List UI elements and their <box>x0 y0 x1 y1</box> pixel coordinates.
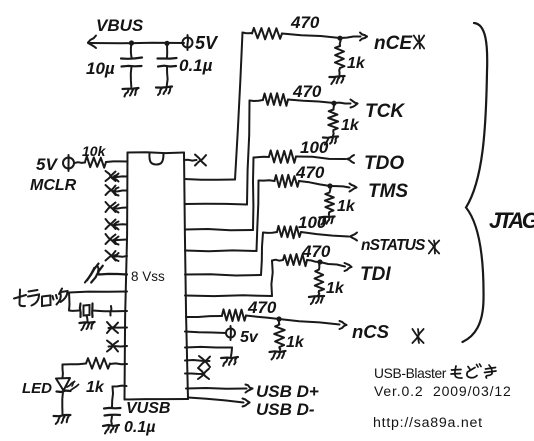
wire pin-to-R7 feed <box>185 158 254 231</box>
svg-text:10µ: 10µ <box>86 59 115 78</box>
junction nCE <box>337 36 342 41</box>
title url <box>373 415 483 431</box>
net label USB D+ <box>256 382 319 401</box>
refmark nSTATUS <box>429 241 439 254</box>
value label 1k TCK <box>341 117 360 134</box>
pin NC left 8 <box>107 341 127 352</box>
value label 470 nCE <box>290 13 320 32</box>
svg-text:470: 470 <box>301 242 331 261</box>
value label 1k TDI <box>326 280 345 297</box>
junction nCS <box>276 316 281 321</box>
resistor R12 1k TDI <box>315 262 325 295</box>
pin NC left 2 <box>106 185 128 196</box>
net label nCS <box>352 321 390 342</box>
capacitor C3 0.1u <box>104 408 121 424</box>
ground pin right <box>221 357 238 366</box>
capacitor C2 0.1u <box>158 58 177 86</box>
wire pin-to-R5 feed <box>185 101 250 205</box>
pin NC left 1 <box>106 171 128 182</box>
resistor R3 470 <box>243 28 283 39</box>
value label 470 TCK <box>292 82 322 101</box>
svg-text:5V: 5V <box>195 33 219 53</box>
svg-text:http://sa89a.net: http://sa89a.net <box>373 415 483 431</box>
title version <box>374 383 512 399</box>
ground C3 <box>103 425 119 434</box>
wire Vss pin <box>99 273 127 276</box>
resistor R6 1k TCK <box>328 103 338 135</box>
terminal 5v right <box>226 326 235 340</box>
net label nCE <box>374 33 413 54</box>
resistor R10 100 <box>263 226 301 238</box>
wire R1-to-pin4 <box>106 160 128 163</box>
capacitor C1 10u <box>121 58 142 88</box>
wire VUSB pin <box>112 386 127 408</box>
wire USB D+ <box>186 385 253 393</box>
value label 470 TDI <box>301 242 331 261</box>
wire pin-to-R10 feed <box>185 233 263 276</box>
svg-text:5v: 5v <box>240 329 259 346</box>
svg-text:5V: 5V <box>36 155 58 174</box>
value label 100 TDO <box>300 138 329 157</box>
net label nSTATUS <box>361 237 426 254</box>
node VBUS label <box>96 16 144 35</box>
svg-text:1k: 1k <box>86 379 105 396</box>
svg-text:LED: LED <box>22 380 52 397</box>
svg-text:100: 100 <box>300 138 329 157</box>
svg-text:TMS: TMS <box>368 181 408 202</box>
pin NC right b1 <box>185 356 210 367</box>
label JTAG <box>489 208 534 233</box>
svg-text:1k: 1k <box>326 280 345 297</box>
label ceralock-ra <box>28 290 39 306</box>
svg-text:MCLR: MCLR <box>30 177 77 194</box>
pin NC right b2 <box>185 368 209 379</box>
net label TMS <box>368 181 408 202</box>
svg-text:TDO: TDO <box>364 153 404 174</box>
svg-text:nCE: nCE <box>374 33 413 54</box>
junction TMS <box>327 183 332 188</box>
value label 100 nSTATUS <box>298 213 327 232</box>
wire pin-to-R2 <box>110 362 127 365</box>
wire 5V-to-R1 <box>75 161 86 164</box>
wire R13-to-nCS <box>246 316 347 330</box>
value label 1k nCE <box>347 55 366 72</box>
resistor R9 1k TMS <box>325 186 334 215</box>
wire R3-to-nCE <box>282 33 367 41</box>
pin tick resonator <box>110 306 111 316</box>
wire resonator top loop <box>69 292 127 311</box>
wire R2-to-LED <box>63 364 87 379</box>
svg-text:470: 470 <box>290 13 320 32</box>
value label 10k <box>82 143 107 159</box>
value label 1k nCS <box>286 334 305 351</box>
resistor R4 1k nCE <box>335 38 345 74</box>
wire TDO-in <box>296 155 354 163</box>
value label 10u <box>86 59 115 78</box>
svg-text:USB-Blaster: USB-Blaster <box>374 366 447 381</box>
pin NC left 5 <box>106 234 128 245</box>
value label 0.1u <box>179 56 213 75</box>
resistor R11 470 <box>272 254 307 266</box>
wire gnd pin right <box>185 347 232 356</box>
value label 1k TMS <box>337 198 356 215</box>
label LED <box>22 380 52 397</box>
junction VBUS-C2 <box>164 41 169 46</box>
svg-text:Ver.0.2 2009/03/12: Ver.0.2 2009/03/12 <box>374 383 512 399</box>
svg-text:1k: 1k <box>347 55 366 72</box>
ground resonator <box>79 322 94 330</box>
label ceralock-ro <box>42 296 51 307</box>
terminal 5V top <box>183 35 193 50</box>
wire resonator bottom <box>93 310 128 313</box>
resistor R13 470 <box>222 309 246 321</box>
title kana do <box>467 364 481 378</box>
pin NC left 3 <box>106 202 128 213</box>
resistor R14 1k nCS <box>274 319 285 350</box>
wire USB D- <box>188 398 250 407</box>
resistor R5 470 <box>250 93 289 106</box>
wire R11-to-TDI <box>307 260 352 271</box>
node 5V MCLR label <box>36 155 58 174</box>
net label TDI <box>360 264 391 285</box>
pin NC left 6 <box>106 251 128 262</box>
value label 1k LED <box>86 379 105 396</box>
LED D1 <box>56 378 79 392</box>
junction TCK <box>331 101 336 106</box>
value label 0.1u bottom <box>124 419 155 436</box>
pin NC left 4 <box>106 219 128 230</box>
svg-text:1k: 1k <box>341 117 360 134</box>
label VUSB <box>126 400 170 417</box>
svg-text:USB D+: USB D+ <box>256 382 319 401</box>
IC U1 body <box>125 152 189 399</box>
junction TDI <box>317 259 322 264</box>
wire 5v pin right <box>185 332 226 334</box>
svg-text:470: 470 <box>295 163 325 182</box>
wire R8-to-TMS <box>299 181 357 192</box>
wire pin-to-R13 <box>186 316 222 317</box>
pin NC left 7 <box>107 322 127 333</box>
terminal 5V MCLR <box>63 155 74 171</box>
ground R6 <box>323 137 338 145</box>
refmark nCS <box>412 329 423 343</box>
node MCLR label <box>30 177 77 194</box>
ground R14 <box>270 351 286 360</box>
ground C1 <box>123 88 139 97</box>
svg-text:VUSB: VUSB <box>126 400 170 417</box>
svg-text:1k: 1k <box>286 334 305 351</box>
pin NC right top <box>184 155 206 166</box>
value label 470 nCS <box>247 298 277 317</box>
ground C2 <box>156 87 172 96</box>
value label 470 TMS <box>295 163 325 182</box>
wire LED-to-gnd <box>61 392 64 415</box>
svg-text:1k: 1k <box>337 198 356 215</box>
svg-text:470: 470 <box>292 82 322 101</box>
svg-text:0.1µ: 0.1µ <box>179 56 213 75</box>
wire R5-to-TCK <box>288 100 358 108</box>
wire pin-to-R8 feed <box>185 181 259 252</box>
ground R12 <box>309 296 324 304</box>
ground R9 <box>319 217 334 225</box>
wire resonator gnd stem <box>87 316 88 322</box>
title kana mo <box>451 366 462 378</box>
wire nSTATUS-in <box>301 232 357 241</box>
node 5V top label <box>195 33 219 53</box>
label ceralock-tsu <box>53 294 61 305</box>
svg-text:VBUS: VBUS <box>96 16 144 35</box>
resistor R8 470 <box>259 175 300 188</box>
label ceralock-se <box>14 290 26 307</box>
resonator X1 <box>80 304 93 318</box>
title kana ki <box>485 365 497 378</box>
pin label 8 Vss <box>131 269 165 284</box>
svg-text:TDI: TDI <box>360 264 391 285</box>
net label TDO <box>364 153 404 174</box>
wire VBUS rail <box>90 42 184 45</box>
resistor R2 1k <box>86 358 110 369</box>
svg-text:USB D-: USB D- <box>256 400 315 419</box>
wire VBUS input arrow <box>88 36 96 49</box>
svg-text:10k: 10k <box>82 143 107 159</box>
svg-text:100: 100 <box>298 213 327 232</box>
svg-text:nSTATUS: nSTATUS <box>361 237 426 254</box>
title USB-Blaster <box>374 366 447 381</box>
svg-text:nCS: nCS <box>352 321 390 342</box>
ground R4 <box>329 76 344 84</box>
resistor R1 10k <box>85 156 106 168</box>
svg-text:0.1µ: 0.1µ <box>124 419 155 436</box>
junction VBUS-C1 <box>129 40 134 45</box>
label ceralock-ku <box>59 289 68 303</box>
wire C1 top lead <box>130 43 133 58</box>
svg-text:470: 470 <box>247 298 277 317</box>
net label USB D- <box>256 400 315 419</box>
svg-text:JTAG: JTAG <box>489 208 534 233</box>
JTAG brace <box>463 23 488 342</box>
wire pin-to-R3 feed <box>185 33 243 180</box>
ground LED <box>54 415 71 424</box>
ground Vss left <box>85 264 103 283</box>
svg-text:8 Vss: 8 Vss <box>131 269 165 284</box>
wire C2 top lead <box>166 43 168 58</box>
node 5v right label <box>240 329 259 346</box>
wire pin-to-R11 feed <box>185 261 273 297</box>
resistor R7 100 <box>254 150 297 163</box>
svg-text:TCK: TCK <box>365 101 405 122</box>
net label TCK <box>365 101 405 122</box>
refmark nCE <box>414 36 424 49</box>
